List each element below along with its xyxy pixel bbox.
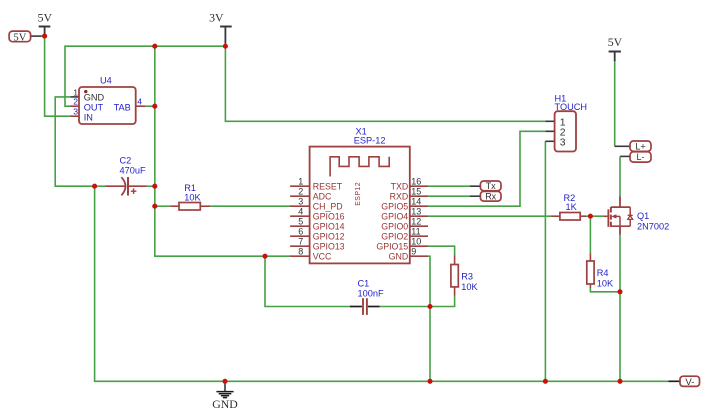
wire gate junction down to R4 top	[589, 216, 591, 253]
wire GPIO15 to R3 top	[428, 246, 455, 255]
svg-text:7: 7	[298, 237, 303, 247]
X1 pin 14 GPIO5	[381, 197, 428, 212]
svg-text:C2: C2	[120, 156, 132, 166]
net label 5V	[9, 31, 45, 43]
wire RXD to Rx label	[428, 195, 470, 197]
svg-text:GPIO15: GPIO15	[376, 241, 408, 251]
svg-text:4: 4	[298, 207, 303, 217]
junction dot rail x=620	[617, 379, 622, 384]
svg-text:Q1: Q1	[637, 211, 649, 221]
wire stub to V- label	[669, 380, 681, 382]
wire TXD to Tx label	[428, 185, 470, 187]
svg-text:C1: C1	[358, 279, 370, 289]
junction dot top rail x=154.8	[152, 44, 157, 49]
svg-text:9: 9	[411, 247, 416, 257]
ground symbol GND	[212, 381, 238, 411]
svg-text:GPIO13: GPIO13	[313, 241, 345, 251]
X1 pin 1 RESET	[290, 177, 343, 192]
svg-text:L+: L+	[635, 142, 645, 152]
X1 pin 11 GPIO2	[381, 227, 428, 242]
svg-text:GND: GND	[212, 397, 238, 411]
module X1 ESP-12	[310, 127, 410, 264]
svg-text:R3: R3	[461, 272, 473, 282]
voltage regulator U4	[70, 76, 145, 124]
junction dot rail x=430	[427, 379, 432, 384]
svg-text:TAB: TAB	[114, 103, 131, 113]
X1 pin 15 RXD	[390, 187, 428, 202]
resistor R1 10K	[170, 183, 210, 210]
X1 pin 12 GPIO0	[381, 217, 428, 232]
wire R4 bottom to source net	[590, 288, 620, 292]
svg-text:CH_PD: CH_PD	[313, 201, 343, 211]
svg-text:RXD: RXD	[390, 191, 409, 201]
X1 pin 5 GPIO14	[290, 217, 345, 232]
svg-text:L-: L-	[636, 152, 644, 162]
svg-text:V-: V-	[685, 377, 694, 388]
wire 5V right down to L+	[614, 61, 616, 146]
X1 pin 2 ADC	[290, 187, 332, 202]
net label Tx	[480, 181, 501, 191]
wire C1 junction down to rail	[429, 307, 431, 382]
X1 pin 13 GPIO4	[381, 207, 428, 222]
svg-text:TOUCH: TOUCH	[555, 102, 588, 112]
svg-text:RESET: RESET	[313, 181, 343, 191]
wire H1 pin 3 down to ground rail	[544, 141, 546, 381]
wire U4 OUT up to 3V rail	[65, 46, 225, 106]
wire R3 bottom to junction	[430, 296, 455, 307]
X1 pin 4 GPIO16	[290, 207, 345, 222]
svg-text:GPIO5: GPIO5	[381, 201, 408, 211]
X1 pin 10 GPIO15	[376, 237, 428, 252]
wire VCC junction down to C1 left	[265, 256, 350, 306]
power flag 3V	[209, 10, 232, 46]
svg-text:3: 3	[560, 138, 566, 149]
svg-text:3V: 3V	[209, 10, 224, 24]
svg-text:5V: 5V	[38, 10, 53, 24]
wire U4 GND left-down to C2 left	[55, 97, 94, 186]
net label L+	[630, 141, 651, 152]
svg-text:GND: GND	[389, 251, 409, 261]
junction dot 3V	[223, 44, 228, 49]
capacitor C2 470uF	[106, 156, 147, 196]
svg-text:ESP-12: ESP-12	[354, 136, 386, 146]
X1 pin 6 GPIO12	[290, 227, 345, 242]
X1 pin 8 VCC	[290, 247, 332, 262]
X1 pin 3 CH_PD	[290, 197, 343, 212]
svg-text:2N7002: 2N7002	[637, 222, 669, 232]
resistor R3 10K	[451, 255, 479, 295]
wire 5V junction down to U4 IN	[45, 36, 71, 116]
wire U4 TAB to 3V vertical	[145, 105, 155, 107]
junction dot C1 right	[427, 304, 432, 309]
svg-text:100nF: 100nF	[358, 288, 384, 298]
connector H1 TOUCH	[545, 93, 587, 151]
svg-text:VCC: VCC	[313, 251, 332, 261]
svg-text:ESP12: ESP12	[355, 182, 362, 206]
net label V-	[680, 376, 700, 388]
svg-text:2: 2	[298, 187, 303, 197]
wire GPIO4 to R2	[428, 215, 552, 217]
svg-text:3: 3	[73, 107, 78, 117]
wire Q1 source down to rail	[619, 235, 621, 382]
svg-text:5V: 5V	[608, 35, 623, 49]
svg-text:R4: R4	[597, 268, 609, 278]
X1 pin 7 GPIO13	[290, 237, 345, 252]
wire ESP GND pin9 down	[428, 256, 430, 306]
svg-text:Tx: Tx	[486, 181, 496, 191]
svg-text:15: 15	[411, 187, 421, 197]
svg-text:1: 1	[298, 177, 303, 187]
junction dot gate R2 R4	[588, 214, 593, 219]
junction dot C2 left	[92, 184, 97, 189]
svg-text:6: 6	[298, 227, 303, 237]
wire L- to Q1 drain	[620, 155, 630, 157]
svg-text:GPIO16: GPIO16	[313, 211, 345, 221]
resistor R2 1K	[552, 193, 587, 220]
wire 3V vertical x=154.8 down to VCC	[155, 46, 291, 256]
junction dot VCC	[262, 254, 267, 259]
svg-text:GPIO2: GPIO2	[381, 231, 408, 241]
svg-text:OUT: OUT	[84, 103, 104, 113]
svg-text:470uF: 470uF	[120, 165, 146, 175]
wire R1 row segments	[155, 205, 171, 207]
junction dot R4 source	[617, 289, 622, 294]
antenna squiggle	[330, 157, 389, 177]
svg-text:2: 2	[73, 97, 78, 107]
svg-text:R1: R1	[184, 183, 196, 193]
power flag 5V left	[38, 10, 53, 36]
X1 pin 9 GND	[389, 247, 428, 262]
svg-text:GPIO0: GPIO0	[381, 221, 408, 231]
svg-text:10K: 10K	[597, 278, 614, 288]
junction dot TAB	[152, 104, 157, 109]
svg-text:5V: 5V	[13, 32, 26, 43]
svg-text:IN: IN	[84, 113, 93, 123]
svg-text:Rx: Rx	[485, 191, 496, 201]
wire 3V rail down to H1 pin 1	[225, 46, 545, 121]
svg-text:8: 8	[298, 247, 303, 257]
svg-text:14: 14	[411, 197, 421, 207]
svg-text:U4: U4	[100, 76, 112, 86]
power flag 5V right	[608, 35, 623, 61]
transistor Q1 2N7002	[604, 196, 670, 234]
junction dot rail x=545	[543, 379, 548, 384]
svg-text:5: 5	[298, 217, 303, 227]
capacitor C1 100nF	[350, 279, 384, 315]
X1 pin 16 TXD	[391, 177, 428, 192]
svg-text:1K: 1K	[566, 202, 578, 212]
svg-text:16: 16	[411, 177, 421, 187]
junction dot C2 right	[152, 184, 157, 189]
net label Rx	[480, 191, 501, 201]
svg-text:10K: 10K	[461, 282, 478, 292]
junction dot 5V left	[42, 34, 47, 39]
junction dot R1 left	[152, 204, 157, 209]
svg-text:13: 13	[411, 207, 421, 217]
net label L-	[630, 152, 651, 162]
wire ground net: C2 left down, bottom rail	[95, 186, 669, 381]
svg-text:GPIO4: GPIO4	[381, 211, 408, 221]
svg-text:3: 3	[298, 197, 303, 207]
svg-text:10K: 10K	[184, 193, 201, 203]
svg-text:4: 4	[137, 97, 142, 107]
svg-text:ADC: ADC	[313, 191, 332, 201]
svg-text:GPIO12: GPIO12	[313, 231, 345, 241]
svg-text:TXD: TXD	[391, 181, 409, 191]
resistor R4 10K	[587, 254, 614, 289]
wire R2 right to gate junction	[586, 215, 604, 217]
svg-text:GND: GND	[84, 92, 105, 102]
svg-text:GPIO14: GPIO14	[313, 221, 345, 231]
svg-text:10: 10	[411, 237, 421, 247]
svg-text:12: 12	[411, 217, 421, 227]
wire C2 row segments	[95, 185, 106, 187]
junction dot GND rail	[222, 379, 227, 384]
svg-text:11: 11	[411, 227, 420, 237]
wire C1 right to junction	[380, 306, 430, 308]
wire GPIO5 up to H1 pin 2	[428, 131, 545, 206]
